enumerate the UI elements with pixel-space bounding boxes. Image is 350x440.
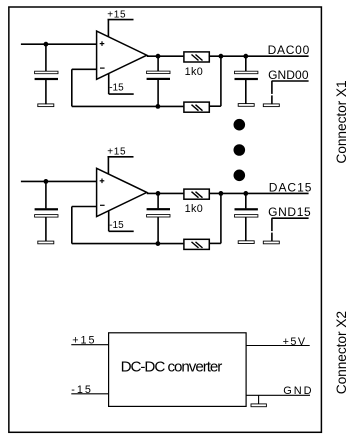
svg-text:-15: -15 (71, 384, 93, 396)
svg-text:GND15: GND15 (268, 205, 311, 219)
svg-text:Connector X2: Connector X2 (334, 311, 349, 394)
wire gnd vertical a (ch0) (271, 81, 273, 94)
svg-text:+5V: +5V (283, 336, 307, 348)
junction input node 15 (ch15) (44, 179, 49, 184)
junction out node (ch15) (156, 191, 161, 196)
wire feedback rail (ch0) (72, 105, 184, 107)
wire junction to C filt (ch15) (245, 193, 247, 208)
capacitor C input 00 (ch0) (35, 71, 58, 74)
junction rail/C out (ch15) (156, 241, 161, 246)
wire C filt to ground (ch15) (245, 217, 247, 241)
wire GND15 net (ch15) (272, 217, 309, 219)
wire input node down to C in (ch0) (45, 44, 47, 71)
wire +15 input (71, 344, 108, 346)
junction filter cap (ch15) (243, 191, 248, 196)
capacitor C input 15 (ch15) (35, 208, 58, 210)
resistor R feedback (ch15) (184, 239, 209, 249)
supply -15 bar (ch15) (109, 230, 134, 232)
svg-text:+15: +15 (72, 335, 96, 347)
wire C to rail (ch0) (157, 80, 159, 107)
supply +15 bar (ch0) (108, 19, 134, 21)
wire gnd vertical a (ch15) (271, 218, 273, 231)
wire +15 vertical (ch0) (107, 20, 109, 37)
ellipsis dot 1 (234, 119, 246, 131)
svg-text:DAC00: DAC00 (268, 43, 310, 57)
resistor R series 1k0 (ch0) (184, 52, 209, 62)
wire feedback vertical (ch15) (71, 207, 73, 244)
wire +5V output (246, 345, 310, 347)
wire out node to C (ch15) (157, 193, 159, 208)
wire IN00 to +input (ch0) (21, 43, 97, 45)
wire C to rail (ch15) (157, 217, 159, 244)
op-amp + mark (ch15) (100, 180, 105, 182)
junction out node (ch0) (156, 54, 161, 59)
wire op-amp out (ch0) (147, 55, 184, 57)
svg-text:1k0: 1k0 (185, 203, 203, 215)
capacitor C filter 15 (ch15) (235, 208, 258, 210)
ground input 00 (ch0) (38, 104, 54, 107)
wire gnd vertical b (ch15) (271, 233, 273, 242)
ground input 15 (ch15) (38, 241, 54, 244)
supply +15 bar (ch15) (108, 156, 134, 158)
wire R to DAC00 net (ch0) (209, 55, 309, 57)
resistor R feedback (ch0) (184, 102, 209, 112)
ground filter 15 (ch15) (238, 241, 254, 244)
wire -input (ch0) (72, 68, 97, 70)
wire -15 vertical (ch0) (108, 73, 110, 94)
svg-text:Connector X1: Connector X1 (334, 80, 349, 163)
wire -15 vertical (ch15) (108, 211, 110, 232)
DC-DC converter box U3 (109, 333, 247, 407)
wire feedback rail (ch15) (72, 243, 184, 245)
capacitor C filter 00 (ch0) (235, 71, 258, 74)
svg-text:-15: -15 (109, 83, 124, 94)
wire op-amp out (ch15) (147, 192, 184, 194)
wire tap down (ch15) (220, 193, 222, 243)
wire tap to R fb (ch15) (209, 242, 221, 244)
junction feedback tap (ch15) (219, 191, 224, 196)
op-amp - mark (ch15) (100, 204, 105, 206)
svg-text:DC-DC converter: DC-DC converter (121, 359, 223, 376)
wire C filt to ground (ch0) (245, 80, 247, 104)
svg-text:GND00: GND00 (268, 68, 309, 82)
supply -15 bar (ch0) (109, 93, 134, 95)
wire C in to ground bar (ch0) (45, 80, 47, 104)
wire feedback vertical (ch0) (71, 69, 73, 106)
junction feedback tap (ch0) (219, 54, 224, 59)
wire R to DAC15 net (ch15) (209, 192, 309, 194)
svg-text:+15: +15 (107, 9, 126, 20)
wire IN15 to +input (ch15) (21, 180, 97, 182)
resistor R series 1k0 (ch15) (184, 189, 209, 199)
wire out node to C (ch0) (157, 56, 159, 71)
wire GND00 net (ch0) (272, 80, 309, 82)
wire gnd vertical b (ch0) (271, 95, 273, 104)
wire -input (ch15) (72, 206, 97, 208)
wire gnd stub (258, 395, 260, 404)
op-amp - mark (ch0) (100, 67, 105, 69)
wire +15 vertical (ch15) (107, 157, 109, 174)
junction rail/C out (ch0) (156, 104, 161, 109)
wire GND output (246, 394, 310, 396)
op-amp + mark (ch0) (100, 43, 105, 45)
wire junction to C filt (ch0) (245, 56, 247, 71)
junction filter cap (ch0) (243, 54, 248, 59)
svg-text:-15: -15 (109, 220, 124, 231)
ellipsis dot 2 (234, 144, 246, 156)
ground net 15 (ch15) (263, 241, 279, 244)
wire input node down to C in (ch15) (45, 181, 47, 208)
svg-text:DAC15: DAC15 (269, 180, 313, 194)
ellipsis dot 3 (234, 170, 246, 182)
svg-text:+15: +15 (107, 147, 126, 158)
wire C in to ground bar (ch15) (45, 217, 47, 241)
ground net 00 (ch0) (263, 104, 279, 107)
junction input node 00 (ch0) (44, 42, 49, 47)
svg-text:GND: GND (283, 385, 313, 397)
capacitor C out 15 (ch15) (147, 208, 170, 210)
capacitor C out 00 (ch0) (147, 71, 170, 74)
wire tap down (ch0) (220, 56, 222, 106)
svg-text:1k0: 1k0 (185, 66, 203, 78)
ground DC-DC (251, 404, 266, 407)
ground filter 00 (ch0) (238, 104, 254, 107)
wire -15 input (71, 393, 108, 395)
op-amp A15 (ch15) (97, 168, 147, 216)
op-amp A00 (ch0) (97, 31, 147, 79)
wire tap to R fb (ch0) (209, 105, 221, 107)
